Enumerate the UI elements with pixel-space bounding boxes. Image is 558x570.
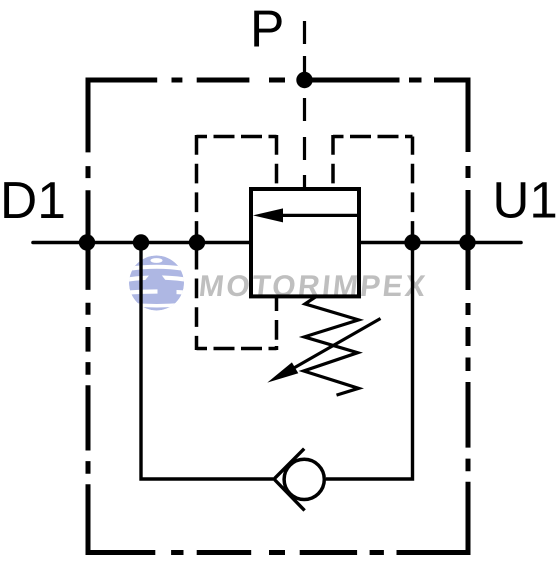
pilot rectangle right (dashed) [333, 135, 413, 241]
check valve ball C1 [284, 459, 324, 499]
adjustment arrow head [267, 362, 298, 382]
enclosure border left [86, 78, 91, 556]
enclosure border right [466, 78, 471, 556]
junction dot main line / bottom loop left [133, 234, 149, 250]
enclosure border top [86, 78, 471, 83]
pilot line P (dashed vertical) [303, 21, 306, 188]
valve arrow head [253, 208, 283, 222]
watermark globe logo [128, 256, 185, 311]
valve arrow shaft [280, 214, 357, 217]
wire U1 main line right segment [359, 241, 521, 245]
junction dot on border left / main line [79, 234, 95, 250]
junction dot main line / border right [459, 234, 475, 250]
spring [304, 297, 359, 396]
wire D1 main line left segment [33, 241, 251, 245]
svg-text:D1: D1 [0, 171, 66, 229]
check valve seat [274, 449, 305, 511]
adjustment arrow shaft [293, 319, 381, 369]
watermark text MOTORIMPEX [197, 270, 429, 303]
wire bottom loop right [326, 243, 413, 480]
enclosure border bottom [86, 550, 471, 555]
junction dot P line / border top [296, 72, 312, 88]
valve body V1 [251, 189, 359, 296]
wire bottom loop left [141, 243, 273, 480]
junction dot main line / bottom loop right [404, 234, 420, 250]
svg-text:U1: U1 [493, 172, 558, 229]
pilot rectangle left (dashed) [197, 135, 277, 350]
svg-text:P: P [250, 0, 284, 58]
junction dot main line / pilot left [189, 234, 205, 250]
